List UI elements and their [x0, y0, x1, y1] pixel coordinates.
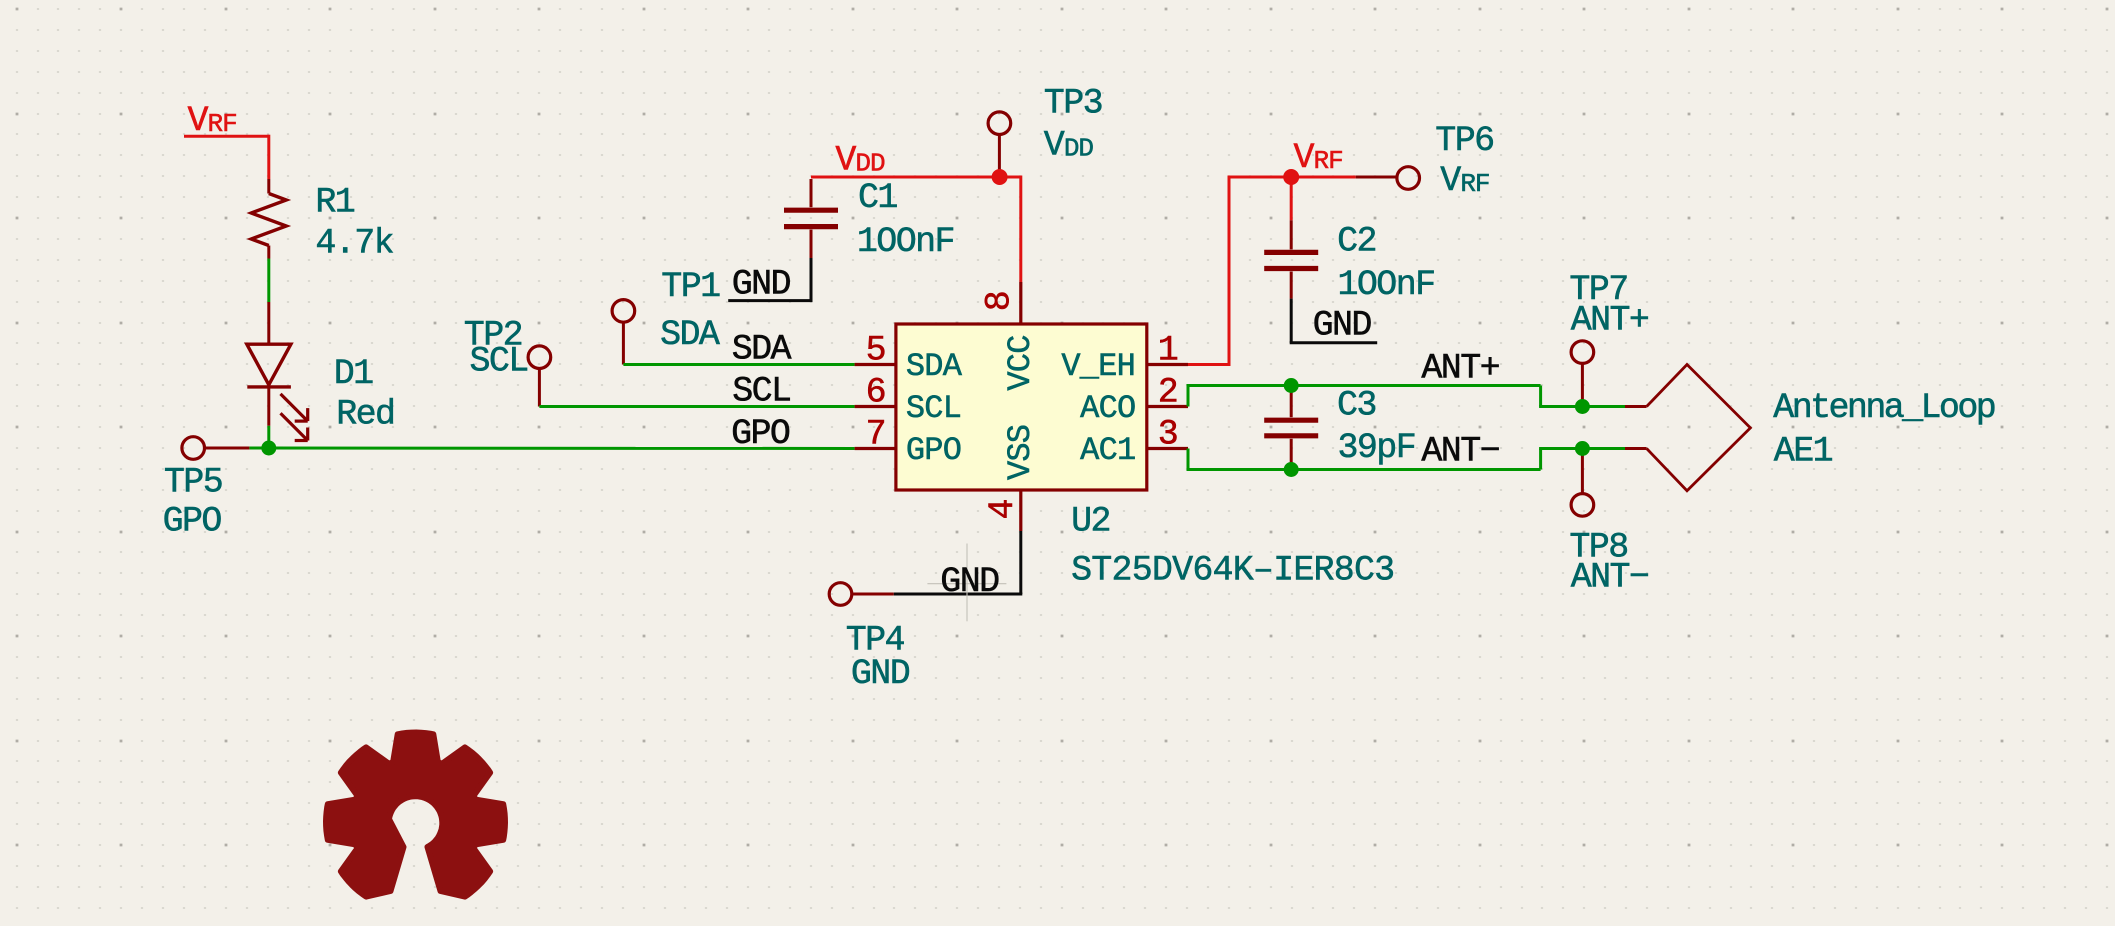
svg-text:C2: C2	[1337, 222, 1376, 262]
wire C1 to GND	[810, 258, 813, 301]
svg-text:1: 1	[1158, 331, 1178, 371]
wire R1 to D1	[267, 259, 270, 303]
wire AC1 to antenna	[1187, 449, 1190, 470]
test point TP6	[1356, 176, 1397, 179]
wire AC0 to antenna	[1187, 386, 1190, 407]
pin 8 VCC	[1019, 282, 1022, 324]
svg-text:39pF: 39pF	[1338, 428, 1416, 468]
svg-text:3: 3	[1158, 415, 1177, 455]
svg-text:ANT−: ANT−	[1421, 432, 1499, 472]
svg-text:GND: GND	[940, 562, 999, 602]
ground symbol GND (C2)	[1290, 341, 1378, 344]
svg-text:SDA: SDA	[660, 315, 720, 355]
junction VDD	[992, 169, 1008, 185]
svg-text:VSS: VSS	[1002, 425, 1039, 480]
svg-text:GPO: GPO	[163, 502, 222, 542]
ground symbol GND (TP4)	[966, 544, 968, 622]
svg-text:TP6: TP6	[1435, 121, 1493, 161]
svg-text:ST25DV64K–IER8C3: ST25DV64K–IER8C3	[1071, 551, 1394, 591]
wire GPO net	[269, 447, 855, 451]
svg-text:C1: C1	[858, 178, 897, 218]
svg-text:ANT+: ANT+	[1421, 349, 1499, 389]
svg-text:SDA: SDA	[732, 330, 792, 370]
test point TP1	[612, 300, 635, 323]
svg-text:4.7k: 4.7k	[315, 224, 393, 264]
wire VRF to R1	[267, 135, 270, 179]
svg-text:C3: C3	[1337, 385, 1376, 425]
junction TP7	[1575, 399, 1590, 414]
svg-text:ACO: ACO	[1080, 390, 1135, 427]
svg-text:5: 5	[866, 331, 885, 371]
svg-text:7: 7	[866, 415, 885, 455]
svg-text:SCL: SCL	[470, 342, 528, 382]
resistor R1	[267, 179, 270, 194]
svg-text:TP5: TP5	[164, 463, 222, 503]
svg-text:Red: Red	[336, 395, 394, 435]
svg-text:V_EH: V_EH	[1061, 348, 1135, 385]
test point TP3	[988, 112, 1011, 135]
pin 7 GPO	[855, 447, 896, 450]
pin 6 SCL	[855, 405, 896, 408]
svg-text:1OOnF: 1OOnF	[857, 222, 954, 262]
junction VRF	[1283, 169, 1299, 185]
svg-text:R1: R1	[315, 183, 354, 223]
OSHW logo	[326, 733, 505, 897]
svg-text:ANT+: ANT+	[1571, 301, 1649, 341]
svg-text:2: 2	[1158, 373, 1177, 413]
svg-text:ANT−: ANT−	[1571, 557, 1649, 597]
wire SCL net	[539, 405, 854, 408]
svg-text:VCC: VCC	[1002, 335, 1039, 390]
svg-text:TP1: TP1	[661, 267, 720, 307]
test point TP5	[182, 437, 205, 460]
capacitor C3	[1290, 386, 1293, 418]
capacitor C2	[1290, 220, 1293, 249]
pin 2 AC0	[1147, 405, 1188, 408]
antenna AE1	[1625, 405, 1647, 408]
test point TP4	[829, 583, 852, 606]
wire VRF to C2	[1290, 177, 1293, 220]
svg-text:TP3: TP3	[1044, 84, 1102, 124]
svg-text:U2: U2	[1071, 502, 1110, 542]
svg-text:D1: D1	[334, 354, 373, 394]
ground symbol GND (C1)	[728, 299, 812, 302]
wire VDD rail	[811, 176, 1021, 179]
wire D1 to GPO node	[267, 426, 270, 448]
junction C3 top	[1284, 378, 1299, 393]
svg-text:AE1: AE1	[1774, 432, 1833, 472]
wire SDA net	[623, 363, 854, 366]
capacitor C1	[810, 179, 813, 207]
wire C2 to GND	[1290, 299, 1293, 343]
svg-text:SCL: SCL	[906, 390, 961, 427]
wire V_EH to VRF	[1188, 363, 1229, 366]
pin 1 V_EH	[1147, 363, 1188, 366]
svg-text:GPO: GPO	[731, 414, 790, 454]
svg-text:Antenna_Loop: Antenna_Loop	[1773, 388, 1994, 428]
wire TP5 to node	[249, 447, 268, 450]
svg-text:SDA: SDA	[906, 348, 963, 385]
test point TP2	[528, 346, 551, 369]
svg-text:GND: GND	[851, 654, 910, 694]
pin 4 VSS	[1019, 490, 1022, 531]
wire VSS to GND	[1019, 531, 1022, 594]
test point TP8	[1571, 494, 1594, 517]
svg-text:GND: GND	[1313, 305, 1372, 345]
svg-text:AC1: AC1	[1080, 432, 1135, 469]
junction C3 bottom	[1284, 462, 1299, 477]
pin 5 SDA	[855, 363, 896, 366]
IC U2 body	[896, 324, 1147, 490]
svg-text:GND: GND	[732, 264, 791, 304]
pin 3 AC1	[1147, 447, 1188, 450]
svg-text:4: 4	[983, 500, 1023, 520]
test point TP7	[1571, 341, 1594, 364]
svg-text:GPO: GPO	[906, 432, 961, 469]
svg-text:1OOnF: 1OOnF	[1338, 265, 1435, 305]
svg-text:8: 8	[980, 292, 1020, 311]
svg-text:6: 6	[866, 373, 885, 413]
junction GPO node	[261, 441, 276, 456]
svg-text:SCL: SCL	[732, 372, 790, 412]
diode D1	[267, 302, 270, 345]
junction TP8	[1575, 441, 1590, 456]
